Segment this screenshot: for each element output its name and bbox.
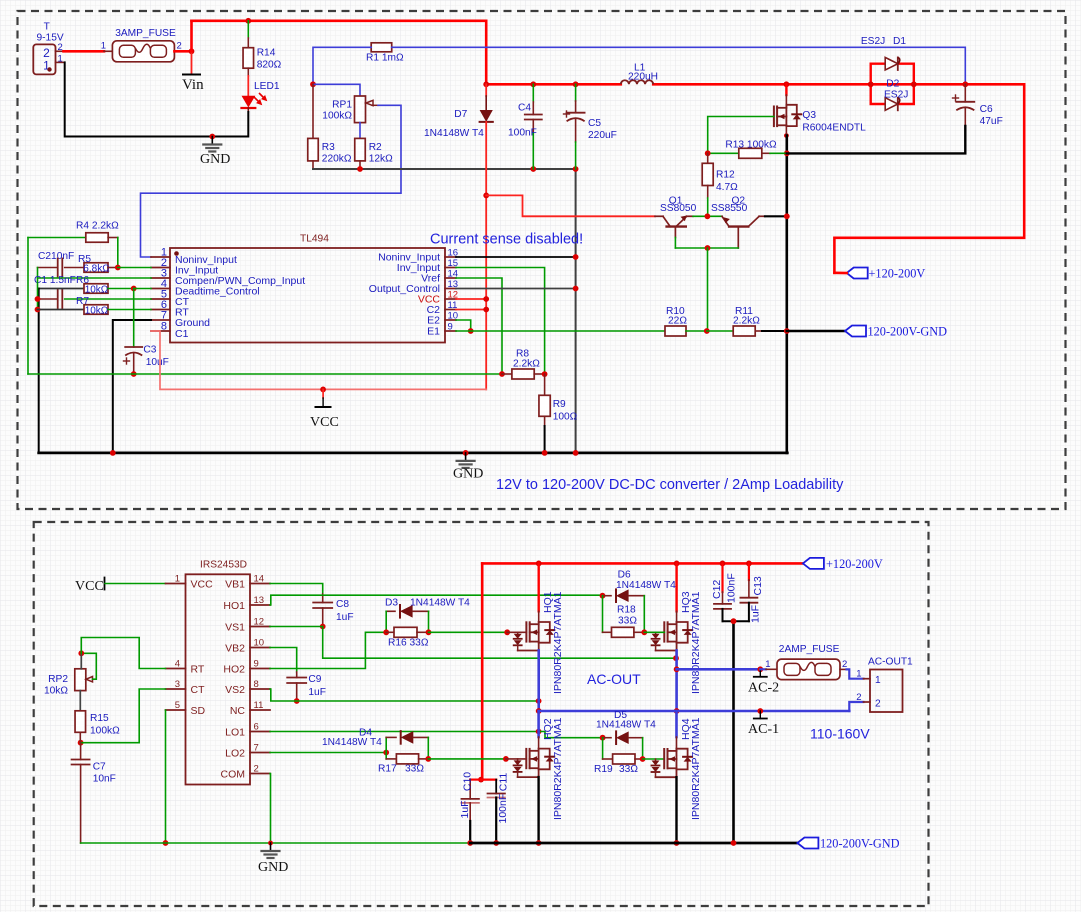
capacitor C11: [481, 778, 496, 780]
svg-text:1: 1: [765, 659, 770, 670]
svg-text:10kΩ: 10kΩ: [85, 285, 109, 296]
fuse F1 3AMP_FUSE: [112, 41, 174, 62]
svg-text:2: 2: [875, 699, 881, 710]
wire: [456, 298, 486, 300]
resistor R3: [308, 138, 319, 161]
wire: [723, 620, 749, 622]
svg-text:2: 2: [856, 692, 861, 703]
node: [705, 150, 711, 156]
net flag 120-200V-GND: [845, 326, 866, 337]
pin 3 TL494: [151, 277, 170, 279]
transistor HQ3: [674, 561, 680, 567]
wire: [56, 50, 64, 52]
svg-text:1uF: 1uF: [308, 687, 326, 698]
svg-text:33Ω: 33Ω: [618, 616, 637, 627]
node: [78, 650, 84, 656]
svg-text:IPN80R2K4P7ATMA1: IPN80R2K4P7ATMA1: [690, 591, 702, 694]
svg-text:R18: R18: [617, 605, 636, 616]
pin 10 IRS2453D: [250, 647, 270, 649]
svg-text:C6: C6: [980, 104, 993, 115]
svg-text:D6: D6: [618, 570, 631, 581]
node: [705, 245, 711, 251]
svg-text:C9: C9: [308, 674, 321, 685]
wire: [81, 638, 165, 669]
svg-text:10nF: 10nF: [93, 774, 116, 785]
node: [731, 618, 737, 624]
node: [784, 213, 790, 219]
node: [110, 450, 116, 456]
svg-text:3AMP_FUSE: 3AMP_FUSE: [115, 28, 176, 39]
pin 1 IRS2453D: [166, 583, 186, 585]
node: [503, 756, 509, 762]
wire: [456, 288, 576, 290]
svg-text:2.2kΩ: 2.2kΩ: [733, 316, 760, 327]
wire: [270, 632, 386, 668]
svg-text:RP2: RP2: [48, 674, 68, 685]
svg-text:IPN80R2K4P7ATMA1: IPN80R2K4P7ATMA1: [552, 717, 564, 820]
pin 14 TL494: [445, 277, 456, 279]
capacitor C3: [133, 289, 135, 348]
svg-text:1N4148W T4: 1N4148W T4: [424, 128, 484, 139]
svg-text:220uF: 220uF: [588, 130, 617, 141]
svg-text:Q3: Q3: [802, 110, 816, 121]
node: [504, 629, 510, 635]
wire: [483, 193, 489, 199]
pin 7 TL494: [151, 319, 170, 321]
svg-text:VB2: VB2: [225, 643, 245, 655]
wire: [765, 215, 787, 217]
svg-text:C13: C13: [752, 576, 764, 595]
svg-text:6.8kΩ: 6.8kΩ: [83, 264, 110, 275]
pin 5 TL494: [151, 298, 170, 300]
wire: [428, 758, 506, 760]
ground GND: [268, 841, 273, 846]
node R14 top: [245, 18, 251, 24]
svg-text:2: 2: [254, 764, 259, 775]
node: [131, 371, 137, 377]
svg-text:R17: R17: [378, 764, 397, 775]
node: [536, 708, 542, 714]
wire: [429, 631, 508, 633]
svg-text:GND: GND: [258, 860, 288, 875]
svg-text:C8: C8: [336, 599, 349, 610]
wire: [312, 84, 314, 138]
svg-text:C4: C4: [518, 103, 531, 114]
svg-text:SD: SD: [191, 705, 206, 717]
svg-text:C12: C12: [711, 580, 723, 599]
svg-text:R6004ENDTL: R6004ENDTL: [802, 123, 866, 134]
svg-text:VS2: VS2: [225, 684, 245, 696]
wire: [537, 777, 539, 843]
svg-text:4: 4: [175, 659, 180, 670]
wire: [65, 62, 249, 136]
svg-text:33Ω: 33Ω: [619, 764, 638, 775]
svg-text:COM: COM: [221, 769, 246, 781]
svg-text:C11: C11: [498, 773, 510, 792]
svg-text:R3: R3: [322, 142, 335, 153]
svg-text:ES2J: ES2J: [861, 36, 885, 47]
capacitor C7: [80, 743, 82, 760]
IC U1 TL494: [170, 248, 445, 343]
wire: [313, 84, 360, 96]
svg-text:C10: C10: [462, 772, 474, 791]
wire: [456, 330, 665, 332]
node: [357, 166, 363, 172]
svg-text:D3: D3: [385, 598, 398, 609]
svg-text:R15: R15: [90, 713, 109, 724]
svg-text:22Ω: 22Ω: [668, 316, 687, 327]
node: [463, 450, 469, 456]
net flag 120-200V-GND: [797, 838, 818, 849]
ground GND: [209, 134, 215, 140]
svg-text:1uF: 1uF: [459, 800, 471, 818]
node: [78, 740, 84, 746]
svg-text:NC: NC: [230, 705, 246, 717]
node: [673, 655, 679, 661]
wire: [165, 710, 167, 843]
svg-text:C1 1.5nF: C1 1.5nF: [34, 275, 76, 286]
pin 11 IRS2453D: [250, 709, 270, 711]
transistor HQ1: [536, 561, 542, 567]
wire: [787, 330, 845, 333]
pin 15 TL494: [445, 267, 456, 269]
wire: [707, 248, 709, 331]
svg-text:AC-2: AC-2: [748, 681, 779, 696]
wire: [481, 563, 484, 779]
pin 8 TL494: [151, 330, 170, 332]
svg-text:T: T: [44, 22, 50, 33]
svg-text:100nF: 100nF: [497, 794, 509, 824]
wire: [81, 689, 166, 743]
svg-text:1uF: 1uF: [336, 612, 354, 623]
IC U2 IRS2453D: [186, 574, 251, 784]
svg-text:2.2kΩ: 2.2kΩ: [513, 359, 540, 370]
svg-text:SS8050: SS8050: [660, 203, 697, 214]
node: [573, 450, 579, 456]
node: [536, 840, 542, 846]
inductor L1: [621, 80, 653, 84]
svg-text:220kΩ: 220kΩ: [322, 154, 352, 165]
wire: [270, 689, 539, 701]
node: [383, 750, 389, 756]
svg-text:Current sense disabled!: Current sense disabled!: [430, 232, 583, 248]
transistor HQ4: [675, 711, 678, 737]
node: [674, 840, 680, 846]
node: [35, 296, 41, 302]
wire: [849, 702, 863, 711]
node: [641, 629, 647, 635]
pin 5 IRS2453D: [166, 709, 186, 711]
wire: [38, 268, 152, 279]
svg-text:1N4148W T4: 1N4148W T4: [596, 720, 656, 731]
node Vin: [189, 48, 195, 54]
svg-text:10kΩ: 10kΩ: [85, 306, 109, 317]
svg-text:LO1: LO1: [225, 727, 245, 739]
svg-text:C1: C1: [175, 328, 189, 340]
connector T: [33, 44, 55, 74]
svg-text:RT: RT: [191, 664, 205, 676]
svg-text:14: 14: [254, 574, 265, 585]
resistor R15: [79, 691, 81, 711]
node: [530, 166, 536, 172]
node: [573, 166, 579, 172]
svg-text:5: 5: [175, 700, 180, 711]
wire: [544, 426, 546, 453]
svg-text:1N4148W T4: 1N4148W T4: [616, 580, 676, 591]
node: [468, 328, 474, 334]
wire: [113, 320, 151, 453]
svg-text:1: 1: [101, 41, 106, 52]
node: [731, 840, 737, 846]
resistor R12: [707, 153, 709, 163]
wire: [486, 83, 621, 86]
pin 16 TL494: [445, 256, 456, 258]
node: [573, 286, 579, 292]
svg-text:LO2: LO2: [225, 748, 245, 760]
node: [131, 286, 137, 292]
svg-text:RP1: RP1: [332, 100, 352, 111]
svg-text:+120-200V: +120-200V: [826, 557, 883, 571]
capacitor C12: [720, 561, 726, 567]
pin 7 IRS2453D: [250, 752, 270, 754]
svg-text:IPN80R2K4P7ATMA1: IPN80R2K4P7ATMA1: [690, 717, 702, 820]
svg-text:12V to 120-200V DC-DC converte: 12V to 120-200V DC-DC converter / 2Amp L…: [496, 477, 844, 493]
wire: [456, 320, 471, 331]
wire: [247, 21, 249, 38]
net flag +120-200V: [847, 268, 868, 279]
svg-text:TL494: TL494: [300, 234, 329, 245]
svg-text:9: 9: [448, 322, 453, 333]
svg-text:C5: C5: [588, 118, 601, 129]
wire: [693, 215, 722, 217]
node: [493, 840, 499, 846]
svg-text:2: 2: [58, 42, 63, 53]
pin 12 TL494: [445, 298, 456, 300]
pin 9 IRS2453D: [250, 668, 270, 670]
node: [115, 265, 121, 271]
capacitor C8: [270, 584, 323, 595]
wire: [151, 331, 486, 389]
wire: [141, 105, 402, 257]
pin 8 IRS2453D: [250, 688, 270, 690]
diode D2: [871, 84, 914, 104]
pin 4 TL494: [151, 288, 170, 290]
svg-text:12: 12: [254, 617, 265, 628]
svg-text:R12: R12: [716, 170, 735, 181]
pin 3 IRS2453D: [166, 688, 186, 690]
wire: [270, 595, 603, 605]
svg-text:VB1: VB1: [225, 579, 245, 591]
node: [310, 81, 316, 87]
svg-text:R19: R19: [594, 764, 613, 775]
svg-text:IRS2453D: IRS2453D: [200, 560, 247, 571]
wire: [787, 126, 966, 153]
wire: [708, 117, 774, 154]
pin 10 TL494: [445, 319, 456, 321]
node: [536, 729, 542, 735]
svg-text:ES2J: ES2J: [884, 90, 908, 101]
wire: [247, 68, 249, 76]
svg-text:D7: D7: [454, 109, 467, 120]
node Q1/Q2 emitters: [705, 213, 711, 219]
pin 12 IRS2453D: [250, 626, 270, 628]
node: [35, 307, 41, 313]
svg-text:D1: D1: [893, 36, 906, 47]
node: [757, 666, 763, 672]
wire: [105, 583, 166, 585]
node: [542, 371, 548, 377]
net label AC-2: [759, 669, 761, 677]
svg-text:1N4148W T4: 1N4148W T4: [410, 598, 470, 609]
svg-text:R1 1mΩ: R1 1mΩ: [366, 53, 404, 64]
node: [674, 708, 680, 714]
svg-text:10uF: 10uF: [146, 357, 169, 368]
power flag VCC: [320, 387, 326, 393]
pin 2 IRS2453D: [250, 773, 270, 775]
wire: [456, 256, 576, 258]
wire: [456, 309, 486, 311]
wire: [456, 268, 545, 375]
capacitor C10: [478, 777, 484, 783]
wire: [539, 710, 850, 713]
svg-text:D2: D2: [886, 79, 899, 90]
net label AC-1: [759, 711, 761, 719]
wire: [81, 842, 471, 844]
wire: [644, 631, 664, 633]
svg-text:AC-OUT1: AC-OUT1: [868, 657, 913, 668]
capacitor C13: [746, 561, 752, 567]
node: [425, 756, 431, 762]
svg-text:SS8550: SS8550: [711, 203, 748, 214]
wire: [313, 168, 576, 170]
wire: [38, 289, 40, 453]
resistor R9: [544, 374, 546, 395]
pin 4 IRS2453D: [166, 668, 186, 670]
wire: [81, 653, 96, 679]
svg-text:LED1: LED1: [254, 81, 280, 92]
svg-text:VCC: VCC: [191, 579, 214, 591]
node: [757, 708, 763, 714]
node: [573, 254, 579, 260]
net flag +120-200V: [803, 558, 824, 569]
pin 2 TL494: [151, 267, 170, 269]
svg-text:GND: GND: [453, 467, 483, 482]
sheet 2 dashed border: [34, 522, 929, 906]
svg-text:220uH: 220uH: [628, 72, 658, 83]
svg-text:120-200V-GND: 120-200V-GND: [820, 837, 900, 851]
svg-text:2AMP_FUSE: 2AMP_FUSE: [779, 644, 840, 655]
potentiometer RP1: [355, 96, 366, 123]
svg-text:1uF: 1uF: [750, 605, 762, 623]
wire: [456, 278, 502, 374]
wire: [270, 752, 386, 754]
node: [784, 133, 789, 138]
wire: [313, 47, 371, 84]
svg-text:10: 10: [254, 638, 265, 649]
node: [674, 666, 680, 672]
node: [320, 624, 326, 630]
svg-text:R9: R9: [553, 399, 566, 410]
capacitor C5: [573, 81, 579, 87]
wire: [27, 238, 29, 375]
wire: [785, 136, 788, 453]
wire: [539, 732, 603, 738]
resistor R1: [371, 43, 392, 52]
ground GND: [465, 453, 467, 461]
svg-text:110-160V: 110-160V: [810, 726, 870, 742]
svg-text:AC-OUT: AC-OUT: [587, 671, 641, 687]
pin 11 TL494: [445, 309, 456, 311]
transistor Q3: [784, 81, 790, 87]
node: [868, 81, 874, 87]
svg-text:13: 13: [254, 595, 265, 606]
svg-text:120-200V-GND: 120-200V-GND: [868, 325, 948, 339]
resistor R14: [243, 48, 254, 68]
node: [536, 698, 542, 704]
svg-text:9: 9: [254, 659, 259, 670]
sheet 1 dashed border: [18, 11, 1066, 509]
node: [784, 328, 790, 334]
wire: [675, 777, 677, 843]
wire: [675, 651, 678, 712]
pin 14 IRS2453D: [250, 583, 270, 585]
pin 6 IRS2453D: [250, 731, 270, 733]
svg-text:R16 33Ω: R16 33Ω: [388, 638, 429, 649]
node: [640, 756, 646, 762]
wire: [482, 562, 803, 565]
node C6 top: [962, 81, 968, 87]
svg-text:8: 8: [254, 679, 259, 690]
node: [163, 840, 169, 846]
wire: [643, 758, 665, 760]
svg-text:6: 6: [254, 722, 259, 733]
svg-text:Vin: Vin: [182, 77, 204, 93]
wire: [762, 330, 787, 332]
svg-text:3: 3: [175, 679, 180, 690]
pin 13 TL494: [445, 288, 456, 290]
diode D7: [483, 81, 489, 87]
svg-text:C7: C7: [93, 762, 106, 773]
pin 13 IRS2453D: [250, 604, 270, 606]
svg-text:10kΩ: 10kΩ: [44, 686, 68, 697]
svg-text:+120-200V: +120-200V: [869, 267, 926, 281]
pin 6 TL494: [151, 309, 170, 311]
pin 9 TL494: [445, 330, 456, 332]
wire: [118, 267, 151, 269]
svg-text:VCC: VCC: [75, 579, 104, 594]
wire: [192, 21, 487, 85]
wire: [485, 122, 487, 390]
wire: [677, 668, 761, 671]
wire: [269, 774, 272, 844]
capacitor C6: [964, 84, 966, 102]
svg-text:GND: GND: [200, 152, 230, 167]
node: [911, 81, 917, 87]
svg-text:1: 1: [856, 669, 861, 680]
svg-text:E1: E1: [427, 326, 440, 338]
node: [704, 328, 710, 334]
node: [542, 450, 548, 456]
transistor HQ2: [537, 711, 540, 737]
pin 1 TL494: [151, 256, 170, 258]
wire: [470, 842, 797, 845]
svg-text:100nF: 100nF: [726, 573, 738, 603]
wire: [270, 731, 539, 733]
wire: [28, 373, 502, 375]
node: [383, 629, 389, 635]
svg-text:11: 11: [254, 700, 264, 711]
svg-text:1: 1: [875, 675, 881, 686]
